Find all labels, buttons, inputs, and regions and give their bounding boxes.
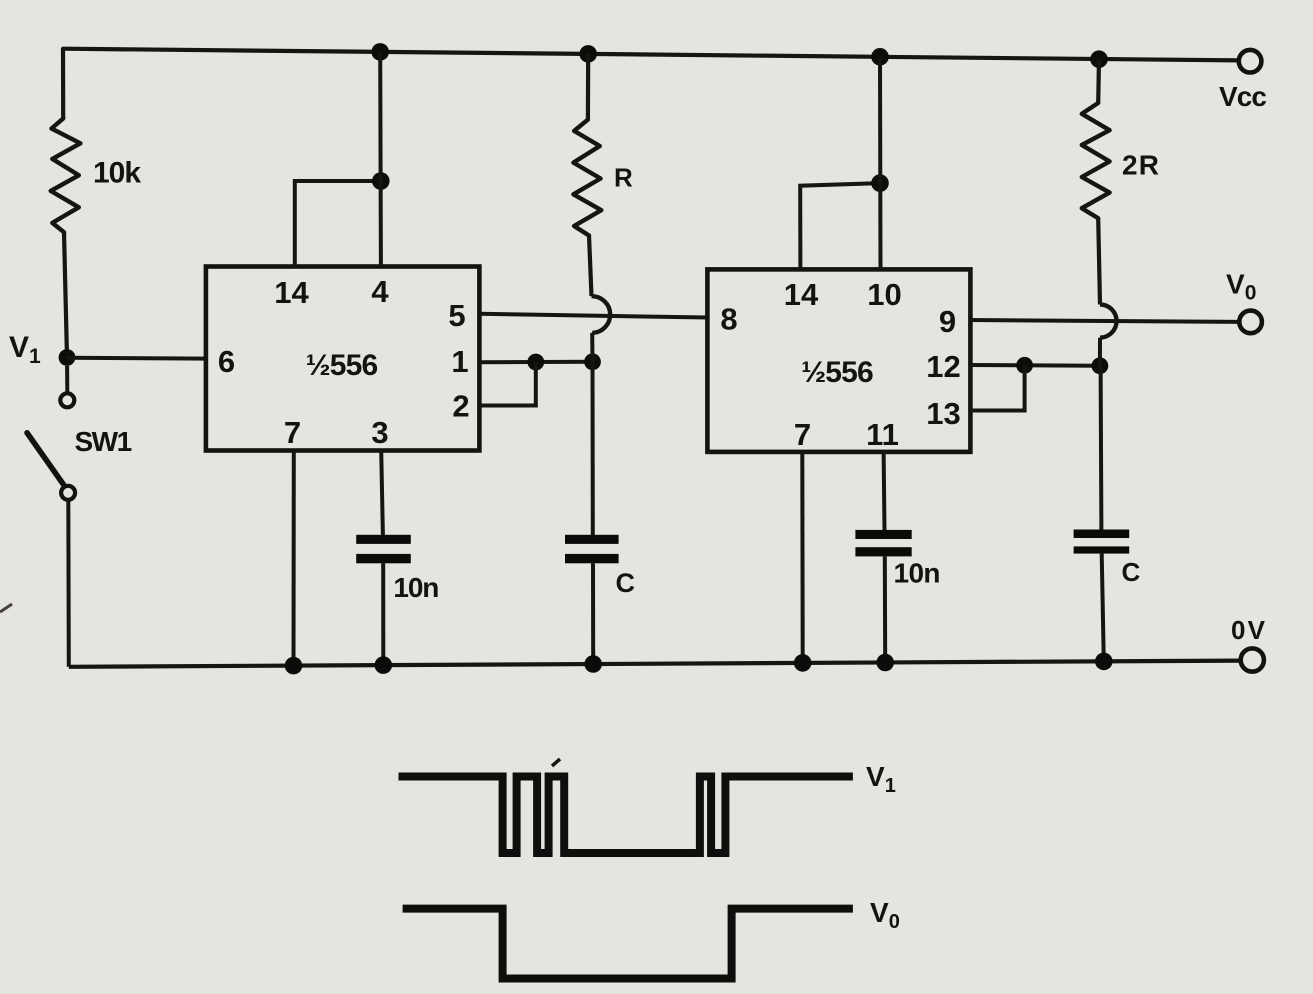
svg-text:R: R	[614, 163, 633, 193]
wire U2 pin 9 to V0	[970, 320, 1239, 322]
node jog junction U2	[871, 174, 889, 192]
wire C4 to 0V rail	[1102, 554, 1104, 662]
node bottom rail junction (U2 pin7)	[794, 654, 812, 672]
svg-text:11: 11	[866, 417, 899, 452]
wire hop R over pin5 wire	[592, 296, 611, 333]
wire switch to 0V rail	[66, 500, 71, 667]
waveform V1 trace	[399, 777, 853, 854]
terminal Vcc	[1219, 50, 1267, 112]
wire U1 pin 3 down	[381, 451, 383, 536]
wire rail to R	[586, 54, 590, 120]
svg-text:0V: 0V	[1231, 615, 1266, 645]
wire V1 node to switch contact	[65, 366, 69, 393]
node bottom rail junction (C3)	[876, 654, 894, 672]
SW1 lever	[27, 433, 65, 486]
svg-text:6: 6	[218, 344, 235, 379]
svg-text:13: 13	[926, 396, 960, 431]
stray scan mark left edge	[0, 604, 12, 612]
svg-text:3: 3	[371, 415, 388, 450]
wire U1 pin 5 to U2 pin 8	[479, 314, 707, 318]
wire U2 pin 11 down	[882, 452, 887, 531]
svg-text:8: 8	[720, 301, 737, 336]
svg-text:½556: ½556	[801, 356, 873, 389]
IC U1 half-556 box	[206, 267, 480, 451]
wire U2 pin 14 stub and jog	[800, 183, 880, 269]
wire U1 pin 14 stub and jog	[295, 181, 381, 267]
svg-text:14: 14	[274, 275, 309, 310]
wire U2 pin 7 down	[800, 452, 804, 663]
resistor 10k	[51, 118, 81, 232]
wire left branch upper lead	[61, 49, 65, 119]
waveform V0 trace	[403, 909, 853, 979]
node U2 pin12/pin13 junction	[1016, 357, 1033, 374]
resistor R	[573, 120, 601, 236]
node jog junction U1	[372, 172, 390, 190]
wire R lower lead	[589, 236, 592, 297]
node top rail junction B (R column)	[579, 45, 597, 63]
svg-text:5: 5	[448, 298, 465, 333]
wire R column to junction and capacitor	[590, 333, 594, 362]
stray tick above V1 waveform	[552, 759, 560, 766]
svg-text:SW1: SW1	[75, 426, 132, 457]
node U2 pin12/2R junction	[1092, 357, 1109, 374]
svg-text:2R: 2R	[1122, 150, 1159, 181]
wire C2 to 0V rail	[381, 563, 385, 665]
svg-text:10k: 10k	[93, 157, 141, 190]
svg-text:½556: ½556	[306, 349, 378, 382]
capacitor C1 (C) plates	[565, 535, 619, 564]
wire 2R column to junction and capacitor	[1098, 338, 1102, 366]
node U1 pin1/R junction	[584, 353, 601, 370]
svg-text:12: 12	[926, 349, 960, 384]
wire U1 pin 4 column	[378, 52, 383, 267]
terminal V0	[1226, 269, 1262, 334]
svg-text:4: 4	[371, 274, 389, 309]
node top rail junction D (2R column)	[1090, 50, 1108, 68]
svg-text:Vcc: Vcc	[1219, 81, 1267, 112]
node bottom rail junction (C1)	[584, 655, 602, 673]
svg-text:C: C	[616, 568, 636, 598]
wire U2 pin 10 column	[878, 57, 883, 270]
svg-text:7: 7	[284, 415, 301, 450]
capacitor C2 (10n) plates	[356, 535, 411, 564]
svg-text:C: C	[1122, 557, 1141, 587]
svg-text:1: 1	[451, 344, 468, 379]
IC U2 half-556 box	[707, 269, 970, 452]
wire hop 2R over pin9 wire	[1100, 305, 1117, 338]
wire bottom 0V rail	[69, 661, 1241, 667]
svg-text:10: 10	[867, 277, 901, 312]
terminal 0V	[1231, 615, 1266, 672]
node U1 pin1/pin2 junction	[527, 354, 544, 371]
wire 10k to V1 node	[64, 232, 67, 357]
node V1 junction	[59, 349, 76, 366]
node top rail junction C (pin10 column)	[871, 48, 889, 66]
SW1 upper contact circle	[60, 393, 74, 407]
svg-text:9: 9	[939, 304, 956, 339]
wire U1 pin 2 loop	[479, 362, 535, 406]
resistor 2R	[1082, 103, 1110, 218]
capacitor C4 (C) plates	[1074, 530, 1130, 554]
svg-text:7: 7	[794, 417, 811, 452]
wire V1 to pin 6	[67, 356, 207, 361]
switch SW1	[27, 393, 132, 500]
node top rail junction A (pin4 column)	[371, 43, 389, 61]
node bottom rail junction (C4)	[1095, 653, 1113, 671]
wire U1 pin 1	[479, 360, 592, 365]
wire U2 pin 13 loop	[970, 365, 1024, 410]
wire U1 pin 7 down	[292, 451, 296, 666]
capacitor C3 (10n) plates	[855, 530, 911, 557]
wire 2R lower lead	[1098, 218, 1100, 304]
svg-text:2: 2	[452, 389, 469, 424]
svg-text:10n: 10n	[894, 558, 941, 589]
wire top Vcc rail	[63, 49, 1239, 61]
wire U2 pin 12	[970, 363, 1100, 368]
node bottom rail junction (U1 pin7)	[285, 657, 303, 675]
wire C1 to 0V rail	[591, 563, 595, 664]
SW1 lower contact circle	[61, 486, 75, 500]
svg-text:10n: 10n	[393, 572, 439, 603]
svg-text:14: 14	[784, 277, 819, 312]
wire C3 to 0V rail	[883, 556, 887, 662]
wire rail to 2R	[1096, 59, 1101, 103]
node bottom rail junction (C2)	[375, 656, 393, 674]
